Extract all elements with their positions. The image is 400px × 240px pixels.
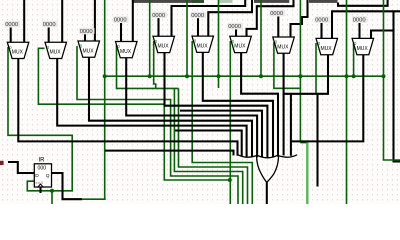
long green vertical x219.6 [218, 0, 220, 88]
svg-text:IR: IR [39, 158, 46, 164]
svg-text:MUX: MUX [120, 49, 132, 55]
MUX6 output [203, 52, 273, 157]
constant 0000 label 10 [352, 16, 368, 23]
MUX1 output [18, 59, 237, 156]
green part of bottom wire [82, 198, 106, 200]
MUX6 select wire [192, 41, 252, 204]
MUX10 [352, 38, 374, 54]
IR register box [34, 158, 51, 188]
svg-text:MUX: MUX [83, 48, 95, 54]
svg-text:0000: 0000 [191, 13, 204, 19]
wire net H (MUX10 right input wrap) [371, 31, 394, 39]
long green vertical x383.5 [384, 0, 400, 160]
MUX1 [7, 42, 29, 58]
MUX3 select wire [77, 46, 238, 204]
wire net G (MUX9 right input from right edge) [332, 11, 400, 38]
top gray bus bar segment 3 [309, 0, 338, 3]
wire const2 to MUX2 [48, 28, 50, 43]
MUX6 [192, 36, 214, 52]
long green vertical x300.4 [299, 0, 301, 143]
wire const8 to MUX8 [277, 17, 279, 38]
MUX1 select wire (to IR area) [8, 47, 72, 191]
constant 0000 label 4 [113, 16, 129, 23]
svg-text:0000: 0000 [80, 29, 93, 35]
MUX8 [273, 37, 295, 53]
MUX2 [45, 42, 67, 58]
MUX10 select wire [353, 43, 355, 78]
svg-text:MUX: MUX [357, 46, 369, 52]
constant 0000 label 5 [152, 12, 168, 19]
svg-text:MUX: MUX [12, 50, 24, 56]
svg-text:0000: 0000 [353, 18, 366, 24]
wire label to IR D input [8, 162, 34, 173]
wire const6 to MUX6 [197, 18, 199, 36]
long green vertical x186 [186, 0, 188, 76]
svg-text:0000: 0000 [228, 24, 241, 30]
svg-text:0000: 0000 [43, 22, 56, 28]
MUX3 output [89, 57, 252, 157]
wire M4 right input bus to top [132, 0, 134, 42]
MUX7 output [241, 53, 278, 157]
svg-text:Q: Q [46, 173, 50, 179]
MUX2 output [57, 59, 246, 158]
MUX8 output wire to OR gate [283, 53, 285, 155]
wire net E (MUX5 right input) [172, 0, 246, 36]
MUX4 select wire [117, 45, 179, 88]
wire const9 to MUX9 [320, 23, 322, 38]
wire net I (top right to bar) [338, 0, 388, 6]
wire net B (MUX8 right input staircase) [291, 0, 308, 37]
svg-text:000: 000 [38, 166, 47, 172]
MUX9 output wire [284, 55, 328, 94]
MUX9 select wire [315, 43, 317, 94]
svg-text:MUX: MUX [321, 46, 333, 52]
wire nest line C8 [175, 131, 242, 157]
IR enable drop with junction [51, 191, 53, 204]
wire M1 right input bus to top [23, 0, 25, 42]
wire net A (MUX7 right input staircase) [247, 0, 294, 36]
pale green bus segment top [219, 0, 233, 3]
MUX7 select wire [229, 41, 231, 204]
wire branch down right-mid [316, 94, 318, 187]
OR gate output wire [266, 182, 268, 204]
svg-text:MUX: MUX [197, 44, 209, 50]
wire const1 to MUX1 [10, 28, 12, 43]
svg-text:0000: 0000 [5, 22, 18, 28]
wire nest line to OR leftmost input [105, 151, 234, 156]
MUX7 [230, 36, 252, 52]
top gray bus bar segment 1 [134, 0, 205, 3]
long green vertical x146 [149, 0, 151, 76]
svg-text:0000: 0000 [152, 13, 165, 19]
long green vertical x262 [260, 0, 262, 76]
IR clock stub [39, 188, 41, 194]
constant 0000 label 3 [79, 28, 95, 35]
wire M3 right input bus to top [94, 0, 96, 41]
wire const10 to MUX10 [358, 23, 360, 38]
OR gate [238, 155, 297, 183]
MUX2 select wire [38, 48, 229, 180]
MUX3 [78, 41, 100, 57]
wire M2 right input bus to top [61, 0, 63, 42]
wire net F (MUX6 right input) [208, 0, 252, 36]
MUX10 output [291, 55, 363, 142]
constant 0000 label 9 [315, 16, 331, 23]
svg-text:MUX: MUX [50, 50, 62, 56]
MUX5 output [165, 53, 268, 158]
svg-text:0000: 0000 [114, 18, 127, 24]
wire const4 to MUX4 [120, 23, 122, 42]
wire const5 to MUX5 [157, 18, 159, 36]
svg-text:MUX: MUX [277, 44, 289, 50]
wire const7 to MUX7 [235, 30, 237, 37]
constant 0000 label 2 [42, 21, 58, 28]
MUX9 [316, 38, 338, 54]
constant 0000 label 8 [270, 10, 286, 17]
light green vertical bottom right [306, 142, 308, 205]
svg-text:MUX: MUX [234, 44, 246, 50]
constant 0000 label 1 [5, 21, 21, 28]
left label ts [0, 161, 4, 165]
svg-text:0000: 0000 [315, 18, 328, 24]
constant 0000 label 7 [228, 23, 244, 30]
MUX5 select wire [154, 41, 156, 88]
wire const3 to MUX3 [84, 34, 86, 41]
wire IR Q output [52, 173, 83, 199]
constant 0000 label 6 [191, 12, 207, 19]
long green vertical x105.7 [104, 0, 106, 199]
svg-text:D: D [35, 173, 39, 179]
green select rail y78 [105, 75, 384, 77]
MUX4 [116, 42, 138, 58]
MUX8 select wire [274, 42, 301, 88]
long green vertical x345 [346, 0, 348, 204]
svg-text:MUX: MUX [158, 44, 170, 50]
top gray bus bar segment 2 [254, 0, 289, 3]
junction dots on rail [103, 74, 107, 78]
MUX5 [153, 36, 175, 52]
wire nest line C4 [180, 111, 262, 158]
svg-text:0000: 0000 [270, 11, 283, 17]
MUX4 output [126, 58, 257, 158]
wire branch to OR gate input [290, 94, 292, 156]
